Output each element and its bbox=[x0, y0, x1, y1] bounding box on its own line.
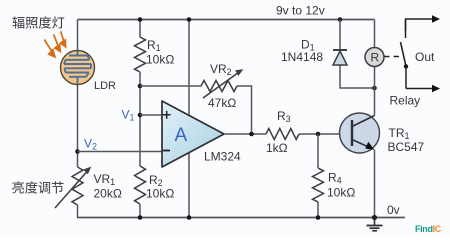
diode D1 1N4148 bbox=[333, 20, 375, 89]
light arrows into LDR bbox=[44, 31, 65, 57]
node output / feedback tap bbox=[249, 132, 254, 137]
label R4 10kΩ bbox=[327, 171, 355, 200]
svg-text:BC547: BC547 bbox=[388, 140, 425, 154]
annotation lamp text 辐照度灯 bbox=[12, 16, 64, 28]
wire op-amp V+ supply bbox=[188, 20, 190, 115]
svg-text:10kΩ: 10kΩ bbox=[146, 187, 174, 201]
label TR1 BC547 bbox=[388, 126, 425, 154]
label VR1 20kΩ bbox=[94, 172, 122, 201]
svg-text:9v to 12v: 9v to 12v bbox=[276, 4, 325, 18]
svg-text:0v: 0v bbox=[387, 203, 400, 217]
wire non-inverting input bbox=[140, 114, 162, 116]
wire feedback to VR2 bbox=[140, 86, 252, 134]
resistor R4 bbox=[313, 168, 324, 202]
wire out bottom arrow bbox=[406, 85, 440, 92]
svg-text:47kΩ: 47kΩ bbox=[208, 96, 236, 110]
label D1 1N4148 bbox=[281, 38, 323, 65]
wire out top arrow bbox=[406, 15, 441, 31]
label R3 1kΩ bbox=[266, 109, 291, 155]
svg-text:A: A bbox=[175, 125, 188, 146]
node bottom rail op-amp supply bbox=[187, 215, 192, 220]
wire op-amp output bbox=[224, 133, 352, 135]
svg-text:Relay: Relay bbox=[390, 94, 421, 108]
resistor R1 bbox=[135, 37, 146, 72]
wire middle vertical (R1/R2 divider) bbox=[139, 20, 141, 218]
op-amp U1 LM324 bbox=[162, 101, 224, 167]
svg-text:20kΩ: 20kΩ bbox=[94, 187, 122, 201]
svg-text:10kΩ: 10kΩ bbox=[327, 186, 355, 200]
node top rail diode bbox=[338, 17, 343, 22]
dashed actuator link bbox=[385, 56, 400, 58]
node top rail R1 bbox=[138, 17, 143, 22]
switch contact lever bbox=[401, 20, 409, 89]
label R2 10kΩ bbox=[146, 173, 174, 201]
potentiometer VR2 bbox=[201, 69, 243, 98]
svg-text:1kΩ: 1kΩ bbox=[266, 141, 288, 155]
potentiometer VR1 bbox=[55, 167, 91, 208]
node diode anode / collector junction bbox=[372, 86, 377, 91]
node V2 junction bbox=[75, 149, 80, 154]
svg-text:1N4148: 1N4148 bbox=[281, 50, 323, 64]
wire op-amp V- supply bbox=[188, 152, 190, 218]
node bottom rail emitter/ground bbox=[372, 215, 377, 220]
node bottom rail R4 bbox=[316, 215, 321, 220]
wire top supply rail 9v-12v bbox=[78, 19, 375, 21]
ground symbol bbox=[367, 218, 383, 231]
relay coil R bbox=[365, 48, 384, 67]
wire inverting input bbox=[78, 151, 163, 153]
node top rail op-amp supply bbox=[187, 17, 192, 22]
photoresistor LDR bbox=[61, 51, 95, 85]
wire left vertical (supply to LDR to VR1) bbox=[77, 20, 79, 218]
wire emitter to 0v bbox=[374, 150, 376, 218]
resistor R2 bbox=[135, 166, 146, 204]
label VR2 47kΩ bbox=[208, 62, 236, 110]
wire R4 branch bbox=[317, 134, 319, 218]
annotation 亮度调节 bbox=[12, 181, 63, 193]
label R1 10kΩ bbox=[146, 38, 174, 67]
resistor R3 bbox=[266, 129, 299, 140]
svg-text:LDR: LDR bbox=[94, 80, 116, 92]
svg-text:10kΩ: 10kΩ bbox=[146, 53, 174, 67]
node V1 junction bbox=[138, 113, 143, 118]
svg-text:FindIC: FindIC bbox=[415, 224, 442, 234]
node bottom rail R2 bbox=[138, 215, 143, 220]
svg-text:Out: Out bbox=[415, 50, 435, 64]
node R1 bottom / feedback junction bbox=[138, 84, 143, 89]
svg-text:R: R bbox=[371, 51, 380, 65]
wire bottom 0v rail bbox=[77, 217, 405, 219]
svg-text:LM324: LM324 bbox=[204, 150, 241, 164]
node base junction bbox=[316, 132, 321, 137]
wire relay / collector vertical bbox=[374, 20, 376, 116]
transistor TR1 BC547 bbox=[340, 113, 380, 153]
